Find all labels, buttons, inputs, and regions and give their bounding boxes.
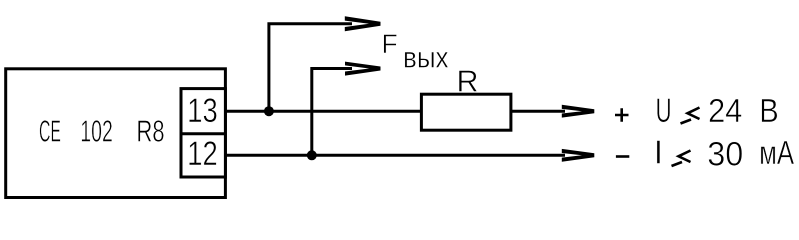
svg-text:В: В bbox=[759, 93, 779, 130]
svg-text:24: 24 bbox=[708, 93, 743, 130]
svg-text:вых: вых bbox=[403, 42, 449, 75]
svg-text:13: 13 bbox=[187, 92, 218, 130]
svg-text:мА: мА bbox=[759, 135, 794, 172]
svg-text:30: 30 bbox=[707, 136, 743, 174]
svg-text:CE: CE bbox=[39, 115, 61, 149]
svg-text:102: 102 bbox=[80, 115, 113, 149]
svg-text:I: I bbox=[654, 135, 663, 172]
svg-text:F: F bbox=[382, 29, 398, 59]
svg-text:R8: R8 bbox=[137, 115, 165, 149]
svg-text:U: U bbox=[656, 92, 672, 130]
svg-text:12: 12 bbox=[187, 135, 218, 173]
svg-text:R: R bbox=[456, 65, 478, 99]
